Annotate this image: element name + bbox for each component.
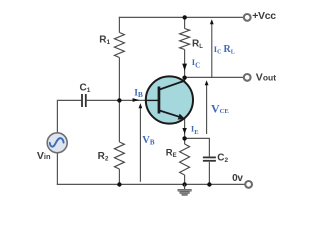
svg-text:RE: RE xyxy=(166,147,177,159)
wire C1 to transistor base xyxy=(87,99,159,101)
svg-text:IB: IB xyxy=(134,88,143,99)
node emitter junction xyxy=(182,136,186,140)
wire left branch upper (rail to R1) xyxy=(118,17,120,33)
terminal 0v xyxy=(245,181,252,188)
svg-text:IE: IE xyxy=(191,124,199,136)
wire Vin to bottom rail xyxy=(56,153,58,185)
node C2/rail junction xyxy=(207,182,211,186)
capacitor C2 xyxy=(203,157,216,160)
wire emitter node to RE xyxy=(184,138,186,144)
source Vin xyxy=(47,133,67,153)
svg-text:R2: R2 xyxy=(98,151,109,163)
svg-text:+Vcc: +Vcc xyxy=(252,10,276,22)
measure VB arrow xyxy=(139,103,143,182)
arrow IB on base wire xyxy=(133,98,140,102)
wire RL to collector node xyxy=(184,50,186,78)
wire bottom rail xyxy=(57,183,245,185)
wire collector node to transistor xyxy=(184,78,186,82)
svg-text:C1: C1 xyxy=(80,82,91,94)
svg-text:Vin: Vin xyxy=(37,150,51,162)
wire emitter to node xyxy=(184,118,186,139)
capacitor C1 xyxy=(82,94,86,107)
ground symbol xyxy=(178,184,191,195)
node rail/RL junction xyxy=(183,15,187,19)
resistor RL xyxy=(180,29,190,50)
wire rail to RL xyxy=(184,17,186,28)
wire input left segment (Vin corner to C1) xyxy=(57,100,81,132)
wire top rail xyxy=(119,16,244,18)
node base junction xyxy=(117,98,121,102)
arrow IC on collector wire xyxy=(182,64,187,71)
wire Vout line xyxy=(184,76,243,78)
node R2/rail junction xyxy=(117,182,121,186)
node collector/Vout junction xyxy=(182,76,186,80)
svg-text:Vout: Vout xyxy=(256,72,276,84)
svg-text:IC RL: IC RL xyxy=(214,44,235,55)
svg-text:IC: IC xyxy=(192,57,200,69)
svg-text:0v: 0v xyxy=(232,173,243,184)
terminal +Vcc xyxy=(244,14,251,21)
svg-text:RL: RL xyxy=(192,39,203,50)
transistor Q1 xyxy=(146,76,193,123)
resistor R2 xyxy=(114,142,124,169)
svg-text:C2: C2 xyxy=(217,152,228,164)
svg-text:VCE: VCE xyxy=(211,101,229,115)
measure VCE arrow xyxy=(205,80,209,134)
wire base node to R2 xyxy=(118,100,120,142)
svg-text:VB: VB xyxy=(142,135,155,146)
node RE/rail junction xyxy=(182,182,186,186)
resistor RE xyxy=(180,144,190,175)
wire emitter node to C2 xyxy=(185,138,210,156)
measure ICRL arrow xyxy=(210,19,214,77)
arrow IE on emitter wire xyxy=(182,128,186,134)
wire R2 to bottom rail xyxy=(118,169,120,185)
wire RE to bottom rail xyxy=(184,175,186,185)
wire C2 to bottom rail xyxy=(208,162,210,185)
resistor R1 xyxy=(114,33,124,58)
wire R1 to base node xyxy=(118,58,120,101)
terminal Vout xyxy=(244,74,251,81)
svg-text:R1: R1 xyxy=(99,35,110,47)
